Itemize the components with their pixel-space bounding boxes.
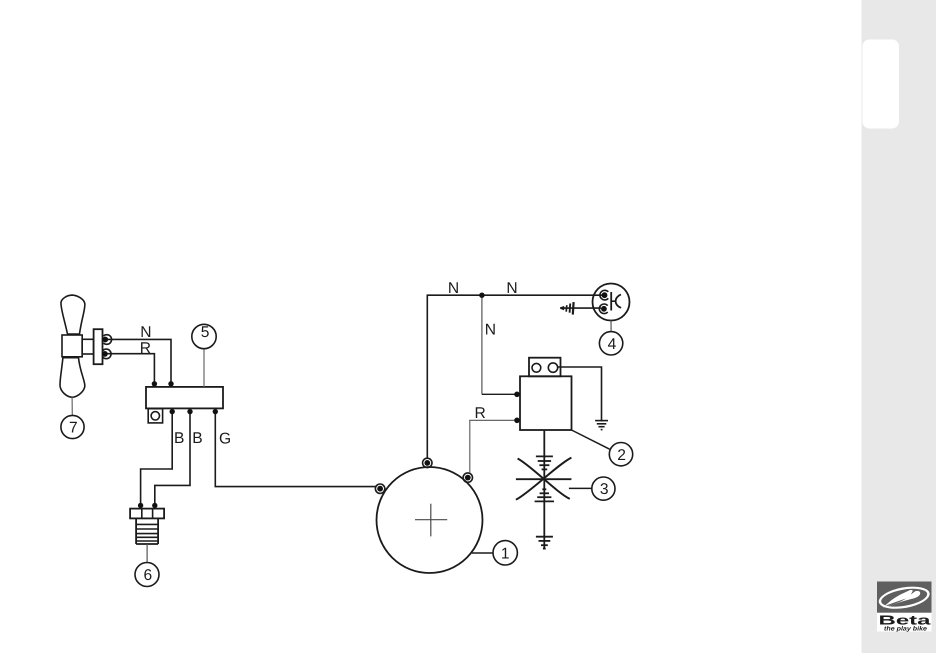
svg-text:N: N xyxy=(140,324,151,341)
svg-text:G: G xyxy=(219,430,231,447)
svg-text:2: 2 xyxy=(617,447,626,464)
svg-text:1: 1 xyxy=(501,545,510,562)
svg-text:N: N xyxy=(448,280,459,297)
svg-text:N: N xyxy=(485,322,496,339)
svg-text:4: 4 xyxy=(608,336,617,353)
svg-text:R: R xyxy=(140,340,151,357)
svg-text:N: N xyxy=(506,280,517,297)
svg-text:B: B xyxy=(192,430,202,447)
svg-text:6: 6 xyxy=(144,567,153,584)
svg-text:the play bike: the play bike xyxy=(884,626,928,633)
svg-text:R: R xyxy=(475,405,486,422)
svg-text:7: 7 xyxy=(69,420,78,437)
svg-text:5: 5 xyxy=(201,324,210,341)
svg-text:3: 3 xyxy=(600,481,609,498)
svg-text:B: B xyxy=(174,430,184,447)
